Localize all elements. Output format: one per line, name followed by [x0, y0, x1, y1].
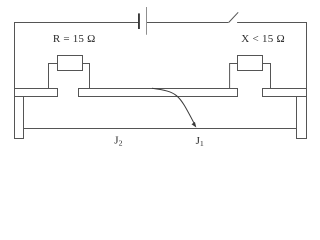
wire battery to switch: [147, 22, 229, 24]
resistor X left lead: [230, 64, 238, 89]
right copper strip: horizontal bar: [263, 89, 307, 97]
wire top-left segment (left corner to battery): [14, 22, 138, 24]
wire left vertical (corner down to left strip): [14, 22, 16, 89]
left copper strip: horizontal bar: [15, 89, 58, 97]
switch (open key) arm: [229, 12, 238, 22]
jockey arrow head: [192, 122, 197, 128]
svg-text:J1: J1: [196, 135, 204, 148]
right copper strip: vertical bar: [297, 97, 307, 139]
bridge wire (slide wire between strips): [24, 128, 297, 130]
resistor X box: [238, 56, 263, 71]
svg-text:R = 15 Ω: R = 15 Ω: [53, 33, 96, 45]
svg-text:X < 15 Ω: X < 15 Ω: [241, 33, 285, 45]
battery cell: long thin positive plate: [146, 7, 148, 35]
resistor R1 left lead: [49, 64, 58, 89]
resistor R1 box: [58, 56, 83, 71]
battery cell: short thick negative plate: [138, 13, 140, 29]
svg-text:J2: J2: [114, 134, 122, 147]
resistor R1 right lead: [83, 64, 90, 89]
wire switch to top-right corner: [237, 22, 307, 24]
jockey arrow shaft (curved pointer toward J1): [152, 88, 195, 125]
wire right vertical (corner down to right strip): [306, 22, 308, 89]
left copper strip: vertical bar: [15, 97, 24, 139]
middle copper strip: [79, 89, 238, 97]
resistor X right lead: [263, 64, 271, 89]
